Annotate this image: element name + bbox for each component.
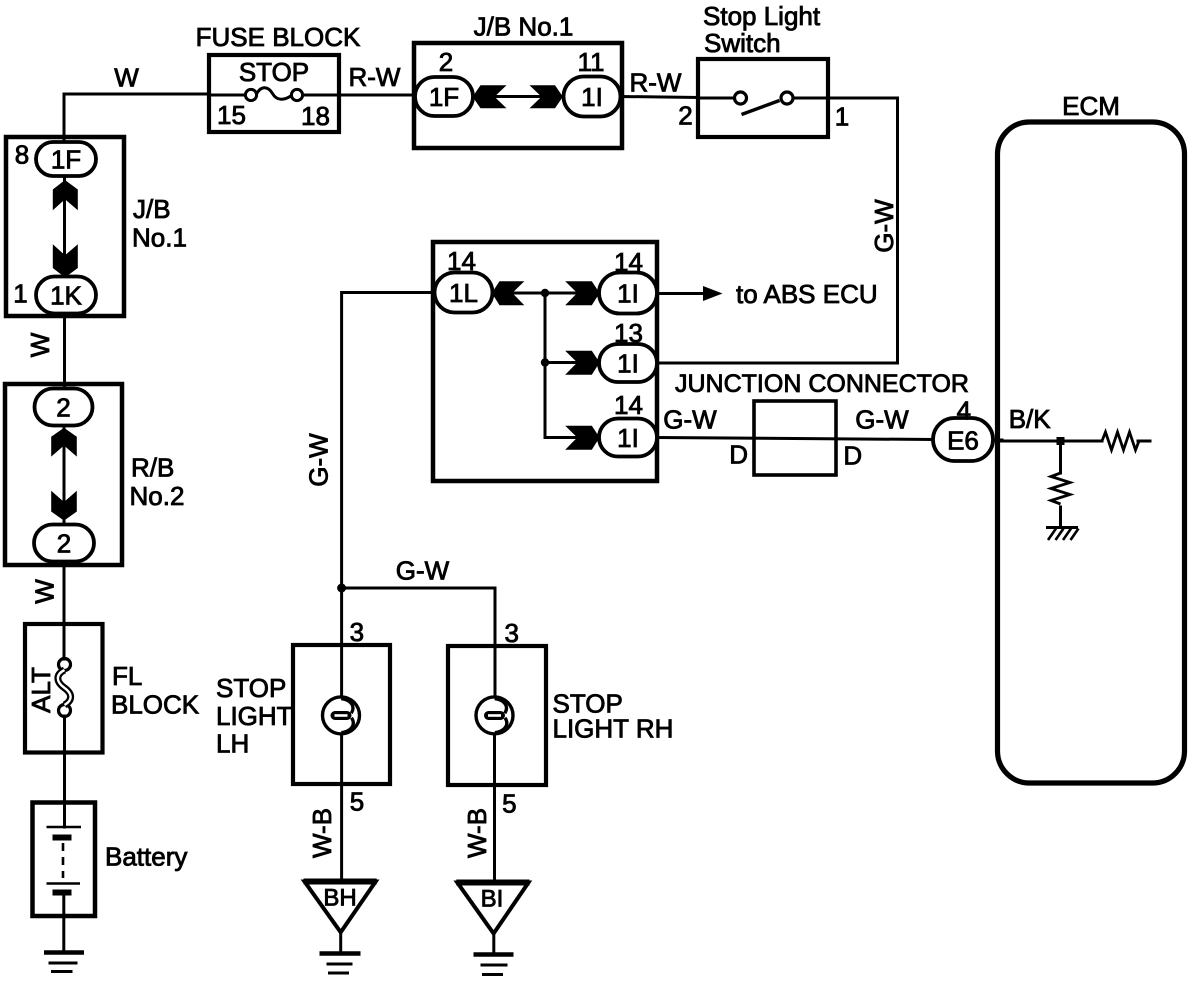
svg-text:W: W: [114, 63, 139, 93]
wire R-W J/B No.1 to stop light switch: [621, 97, 699, 98]
arrow down R/B: [51, 491, 77, 521]
fusible link ALT circles: [59, 659, 71, 671]
wire W-B stop light RH to BI: [493, 734, 496, 882]
svg-text:STOP: STOP: [239, 57, 309, 87]
stop light LH box: [293, 645, 390, 784]
battery ground symbol: [44, 950, 84, 955]
wire inside left J/B 1F to 1K: [63, 176, 66, 277]
wire E6 into ECM: [993, 439, 1002, 442]
svg-text:G-W: G-W: [855, 405, 909, 435]
wire internal vertical branch: [544, 293, 547, 438]
arrow up R/B: [51, 428, 77, 457]
arrow right middle row2: [565, 351, 599, 375]
wire G-W 1L to stop lights vertical: [342, 293, 435, 588]
svg-text:JUNCTION CONNECTOR: JUNCTION CONNECTOR: [675, 370, 969, 398]
wire internal branch row3: [545, 436, 599, 439]
wire inside switch to left contact: [698, 97, 734, 100]
wire B/K inside ECM: [999, 440, 1102, 443]
wire G-W switch pin1 down to 1I pin13: [658, 98, 898, 363]
svg-text:BH: BH: [323, 885, 356, 912]
arrow left top J/B: [473, 85, 507, 108]
wire W 1K to R/B No.2: [63, 314, 66, 390]
svg-text:BLOCK: BLOCK: [111, 690, 200, 720]
svg-text:STOP: STOP: [216, 673, 286, 703]
svg-text:J/B No.1: J/B No.1: [474, 12, 574, 42]
svg-text:5: 5: [350, 787, 364, 817]
svg-text:LIGHT RH: LIGHT RH: [553, 714, 674, 744]
arrow right middle row3: [565, 426, 599, 450]
svg-text:1I: 1I: [581, 82, 603, 112]
connector oval 2 bottom R/B: [34, 525, 94, 562]
svg-text:Stop Light: Stop Light: [703, 1, 821, 31]
wire resistor tail inside ECM: [1138, 440, 1150, 443]
node junction G-W stop light branch: [337, 584, 346, 593]
wire inside fuse block right: [303, 94, 339, 97]
WIRES-GROUP: [64, 94, 1150, 954]
ECM box: [998, 122, 1185, 783]
svg-text:1L: 1L: [449, 278, 478, 308]
svg-text:G-W: G-W: [663, 405, 717, 435]
svg-text:15: 15: [217, 100, 246, 130]
svg-text:11: 11: [578, 47, 605, 77]
svg-text:14: 14: [614, 247, 643, 277]
svg-text:1: 1: [13, 279, 27, 309]
battery plate long thin lower: [47, 882, 81, 885]
wire inside R/B No.2: [63, 426, 66, 526]
node junction 1L branch: [541, 289, 549, 297]
battery box: [33, 803, 96, 917]
svg-text:Switch: Switch: [704, 28, 781, 58]
stop light switch box: [698, 59, 828, 137]
wire inside fuse block left: [209, 94, 245, 97]
connector oval 1F left J/B pin8: [36, 142, 96, 176]
node junction row2 branch: [541, 358, 549, 366]
fuse block box: [209, 55, 339, 132]
svg-text:Battery: Battery: [105, 842, 187, 872]
svg-text:J/B: J/B: [133, 194, 171, 224]
svg-text:14: 14: [614, 390, 643, 420]
svg-text:R/B: R/B: [131, 453, 174, 483]
wire G-W branch to stop light RH: [342, 588, 495, 697]
wire G-W 1I pin14 through junction connector to E6: [657, 438, 933, 440]
wire node down to pull resistor: [1059, 441, 1062, 473]
svg-text:3: 3: [504, 618, 518, 648]
svg-text:13: 13: [614, 318, 643, 348]
bulb LH filament capsule: [331, 711, 506, 720]
connector oval E6 pin4: [933, 418, 993, 461]
arrow left middle 1L: [492, 281, 525, 305]
svg-text:1F: 1F: [429, 82, 459, 112]
wire BH apex to ground: [339, 931, 342, 953]
ground triangle BI: [457, 883, 528, 934]
svg-text:No.2: No.2: [130, 481, 185, 511]
ground BI: [474, 952, 514, 957]
arrow up left J/B: [53, 180, 78, 210]
svg-text:8: 8: [15, 140, 29, 170]
CONNECTOR-OVALS: [34, 77, 993, 562]
connector oval 1F top J/B pin2: [415, 77, 473, 116]
svg-text:G-W: G-W: [869, 199, 899, 253]
junction connector box: [754, 401, 836, 475]
svg-text:ECM: ECM: [1062, 91, 1120, 121]
svg-text:1I: 1I: [617, 279, 639, 309]
wire inside switch from right contact: [793, 97, 828, 100]
battery dashed center line: [62, 843, 65, 878]
svg-text:1F: 1F: [51, 145, 81, 175]
svg-text:LIGHT: LIGHT: [216, 701, 293, 731]
connector oval 1I pin13 row2: [599, 344, 657, 382]
svg-text:R-W: R-W: [630, 68, 682, 98]
wire internal branch row2: [545, 361, 599, 364]
svg-text:G-W: G-W: [304, 433, 334, 487]
svg-text:D: D: [843, 441, 862, 471]
bulb stop light RH: [476, 697, 513, 734]
svg-text:LH: LH: [216, 729, 249, 759]
connector oval 1L pin14: [435, 273, 493, 313]
ECM internal ground hatched: [1046, 526, 1078, 529]
fusible link S-curve: [58, 670, 71, 705]
ground BH: [320, 951, 361, 956]
svg-text:D: D: [729, 440, 748, 470]
connector oval 1I top J/B pin11: [564, 77, 621, 117]
arrow down left J/B: [53, 244, 78, 277]
battery plate short thick lower: [53, 890, 72, 896]
wire battery to ground: [62, 894, 65, 952]
fuse STOP element circles and wave: [245, 89, 256, 100]
wire BI apex to ground: [492, 933, 495, 955]
svg-text:4: 4: [957, 396, 971, 426]
wire inside J/B No.1 top between 1F and 1I: [473, 95, 563, 98]
wire resistor to ECM ground: [1059, 507, 1062, 528]
switch lever: [742, 101, 780, 115]
svg-text:1: 1: [835, 102, 849, 132]
bulb stop light LH: [323, 697, 360, 734]
svg-text:FUSE BLOCK: FUSE BLOCK: [196, 22, 361, 52]
resistor vertical inside ECM: [1051, 473, 1070, 504]
svg-text:1I: 1I: [617, 423, 639, 453]
wire W R/B No.2 to FL block: [63, 562, 66, 660]
svg-text:5: 5: [502, 789, 516, 819]
svg-text:to ABS ECU: to ABS ECU: [736, 279, 878, 309]
wire inside J/B row1 1L to 1I: [493, 292, 600, 295]
svg-text:G-W: G-W: [396, 556, 450, 586]
connector oval 1I pin14 row1: [599, 273, 657, 314]
junction block J/B No.1 middle box: [433, 242, 657, 481]
wire W-B stop light LH to BH: [340, 734, 343, 881]
arrowhead to ABS ECU: [703, 286, 723, 301]
wire R-W fuse block to J/B No.1: [339, 94, 416, 97]
arrow right middle row1: [565, 281, 599, 305]
svg-text:14: 14: [447, 246, 476, 276]
wire to ABS ECU: [657, 292, 706, 295]
svg-text:W-B: W-B: [462, 808, 492, 858]
svg-text:B/K: B/K: [1009, 404, 1052, 434]
battery plate long thin positive: [47, 826, 82, 829]
svg-text:ALT: ALT: [26, 667, 56, 713]
svg-text:3: 3: [350, 617, 364, 647]
svg-text:BI: BI: [481, 886, 504, 913]
svg-text:FL: FL: [112, 661, 142, 691]
ground triangle BH: [304, 882, 530, 934]
stop light RH box: [448, 646, 546, 785]
wire FL link to battery plate: [63, 716, 66, 827]
svg-text:W: W: [30, 579, 60, 604]
bulb RH filament capsule: [484, 711, 505, 720]
svg-text:1I: 1I: [617, 349, 639, 379]
connector oval 1K left J/B pin1: [36, 277, 96, 314]
svg-text:2: 2: [56, 393, 70, 423]
switch contact left: [735, 92, 747, 104]
svg-text:W-B: W-B: [307, 808, 337, 858]
R/B No.2 box: [5, 384, 122, 565]
svg-text:2: 2: [678, 101, 692, 131]
J/B No.1 left box: [6, 137, 124, 316]
J/B No.1 top box: [414, 43, 622, 148]
connector oval 1I pin14 row3: [599, 419, 657, 457]
wire W battery feed top-left: [64, 94, 209, 142]
svg-text:E6: E6: [947, 426, 979, 456]
battery plate short thick: [53, 835, 72, 841]
ARROWS-GROUP: [51, 85, 1064, 592]
resistor horizontal inside ECM: [1102, 432, 1139, 450]
FL block box: [25, 624, 103, 753]
switch contact right: [781, 92, 793, 104]
svg-text:1K: 1K: [50, 281, 82, 311]
wire G-W down into stop light LH: [340, 587, 343, 697]
connector oval 2 top R/B: [35, 389, 93, 426]
svg-text:R-W: R-W: [349, 62, 401, 92]
node junction inside ECM: [1057, 437, 1065, 445]
svg-text:2: 2: [57, 529, 71, 559]
svg-text:No.1: No.1: [132, 223, 187, 253]
svg-text:W: W: [25, 332, 55, 357]
svg-text:18: 18: [301, 101, 330, 131]
svg-text:2: 2: [439, 47, 453, 77]
arrow right top J/B: [530, 85, 563, 108]
